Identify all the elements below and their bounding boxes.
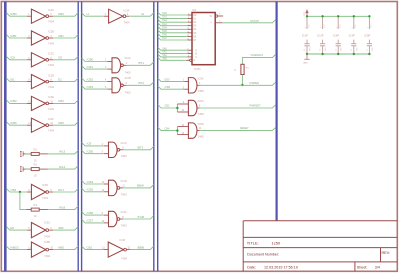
- pin stub: [127, 249, 131, 251]
- svg-text:/CB4: /CB4: [87, 180, 94, 184]
- svg-text:8: 8: [305, 27, 307, 28]
- svg-text:IC6: IC6: [192, 8, 197, 12]
- svg-text:11: 11: [122, 186, 125, 188]
- wire output net /H: [129, 13, 154, 17]
- svg-text:6: 6: [122, 148, 124, 150]
- svg-text:7404: 7404: [44, 254, 50, 258]
- pin stub: [23, 168, 31, 170]
- gate IC1C: [109, 142, 120, 157]
- pin stub: [188, 35, 192, 37]
- svg-text:3/4: 3/4: [375, 266, 380, 270]
- pin stub: [188, 28, 192, 30]
- svg-text:CB6: CB6: [58, 121, 64, 125]
- svg-text:6: 6: [126, 83, 128, 85]
- svg-text:BT2: BT2: [139, 81, 145, 85]
- wire output net OSTOP: [222, 19, 275, 22]
- svg-text:D0: D0: [193, 15, 197, 17]
- junction GND rail: [321, 53, 323, 55]
- pin stub: [104, 222, 109, 224]
- svg-text:3: 3: [126, 63, 128, 65]
- svg-text:CB2: CB2: [58, 99, 64, 103]
- pin stub: [49, 124, 53, 126]
- wire output net CB0: [53, 13, 78, 17]
- inverter IC3B: [31, 242, 48, 257]
- svg-text:A: A: [195, 49, 197, 52]
- svg-text:D3: D3: [193, 26, 197, 28]
- gate IC1D: [109, 180, 120, 195]
- svg-text:CB1: CB1: [58, 34, 64, 38]
- resistor R2: [31, 168, 39, 171]
- pin stub: [39, 153, 48, 155]
- junction GND rail: [353, 53, 355, 55]
- junction CB4: [176, 129, 178, 131]
- wire input net /CB5: [82, 188, 104, 192]
- junction VCC rail: [337, 15, 339, 17]
- wire input net /ABG3: [6, 246, 27, 250]
- inverter IC2B: [31, 31, 48, 45]
- svg-text:/CB5: /CB5: [87, 150, 94, 154]
- wire output net /BBB: [130, 246, 154, 250]
- svg-text:7404: 7404: [121, 257, 127, 261]
- pin stub: [184, 88, 188, 90]
- wire tie vertical: [176, 104, 178, 112]
- wire junction down to R3: [20, 192, 26, 210]
- bus B4 (right): [276, 2, 278, 221]
- svg-text:VCC: VCC: [371, 24, 373, 28]
- pin stub: [27, 15, 32, 17]
- inverter IC3A: [109, 9, 126, 23]
- power pins IC3P with capacitor C4: [349, 16, 359, 54]
- wire VCC rail: [307, 15, 369, 17]
- pin stub: [107, 61, 112, 63]
- svg-text:/MR: /MR: [58, 226, 64, 230]
- svg-text:5: 5: [219, 20, 221, 22]
- pin stub: [104, 15, 109, 17]
- svg-text:C2: C2: [320, 49, 322, 51]
- svg-text:/D1: /D1: [10, 77, 15, 81]
- svg-text:Sheet:: Sheet:: [357, 266, 368, 270]
- svg-text:GND: GND: [303, 62, 308, 64]
- svg-text:C3: C3: [335, 49, 337, 51]
- wire input net /CB2: [82, 78, 108, 82]
- svg-text:3: 3: [199, 83, 201, 85]
- gate IC1A: [112, 58, 123, 73]
- pin stub: [184, 80, 188, 82]
- svg-text:D5: D5: [193, 33, 197, 35]
- svg-text:D1: D1: [193, 18, 197, 20]
- pin stub: [188, 18, 192, 20]
- svg-text:100n: 100n: [372, 47, 374, 51]
- svg-text:7400: 7400: [121, 154, 127, 158]
- resistor R3: [31, 208, 39, 211]
- pin stub: [23, 153, 31, 155]
- wire input net DA3 pin D3: [158, 23, 188, 26]
- svg-text:D7: D7: [193, 40, 197, 42]
- pin stub: [120, 149, 123, 151]
- svg-text:7408: 7408: [198, 135, 204, 139]
- power pins IC4P with capacitor C3: [333, 16, 343, 54]
- gate IC5C: [188, 100, 197, 115]
- junction VCC rail: [306, 15, 308, 17]
- svg-text:/SEL: /SEL: [162, 58, 168, 60]
- svg-text:6: 6: [219, 13, 221, 15]
- resistor R1: [31, 152, 39, 155]
- pin stub: [188, 32, 192, 34]
- wire output net /BT2: [123, 146, 154, 150]
- svg-text:IC1B: IC1B: [125, 76, 131, 80]
- svg-text:BBW: BBW: [137, 184, 144, 188]
- wire input net DA6 pin D6: [158, 33, 188, 36]
- wire input net SA2 pin C: [158, 54, 188, 57]
- svg-text:/SVEND16: /SVEND16: [251, 53, 264, 57]
- svg-text:ABG: ABG: [58, 245, 65, 249]
- wire output net CB6: [53, 122, 78, 126]
- wire output net /CB4: [53, 189, 78, 193]
- wire R3 to bus net WL8: [48, 206, 78, 210]
- svg-text:CB4: CB4: [165, 127, 170, 130]
- svg-text:R1: R1: [34, 148, 38, 152]
- pin stub: [177, 126, 188, 128]
- svg-text:7404: 7404: [48, 85, 54, 89]
- connector pad for R1: [20, 151, 23, 156]
- junction GND rail: [337, 53, 339, 55]
- svg-text:8: 8: [122, 217, 124, 219]
- pin stub: [188, 53, 192, 55]
- pin stub: [27, 37, 32, 39]
- svg-text:DA2: DA2: [162, 19, 167, 22]
- svg-text:8: 8: [352, 27, 354, 28]
- svg-text:CB0: CB0: [58, 12, 64, 16]
- pin stub: [49, 81, 53, 83]
- wire: [26, 168, 31, 170]
- wire input net /C8: [82, 142, 104, 146]
- svg-text:100n: 100n: [356, 47, 358, 51]
- svg-text:IC1A: IC1A: [125, 56, 131, 60]
- inverter IC2A: [31, 9, 48, 23]
- svg-text:/CB9: /CB9: [165, 86, 171, 89]
- svg-text:IC2E: IC2E: [48, 95, 54, 99]
- pin stub: [49, 249, 53, 251]
- wire input net /CB6: [82, 212, 104, 216]
- svg-text:DD0: DD0: [165, 78, 171, 81]
- svg-text:IC3B: IC3B: [44, 240, 50, 244]
- pin stub: [104, 214, 109, 216]
- pin stub: [177, 103, 188, 105]
- power pins IC2P with capacitor C2: [317, 16, 327, 54]
- svg-text:IC3A: IC3A: [124, 8, 130, 12]
- svg-text:7404: 7404: [48, 20, 54, 24]
- svg-text:10: 10: [34, 174, 37, 178]
- svg-text:7408: 7408: [198, 112, 204, 116]
- pin stub: [177, 134, 188, 136]
- wire input net DA7 pin D7: [158, 37, 188, 40]
- svg-text:C8: C8: [58, 56, 62, 60]
- pin stub: [27, 102, 32, 104]
- svg-text:CB4: CB4: [11, 188, 17, 192]
- wire input net CB4: [158, 127, 178, 130]
- svg-text:/CB0: /CB0: [87, 57, 94, 61]
- wire output net D1: [53, 78, 78, 82]
- pin stub: [49, 102, 53, 104]
- ground symbol GND: [304, 54, 309, 59]
- wire input net /C8: [6, 56, 27, 60]
- svg-text:1k: 1k: [234, 70, 237, 72]
- wire GND rail: [307, 53, 369, 55]
- pin stub with bubble (G): [186, 59, 189, 61]
- svg-text:C5: C5: [367, 49, 369, 51]
- svg-text:VCC: VCC: [304, 11, 306, 16]
- svg-text:CB1: CB1: [87, 245, 93, 249]
- junction GND rail: [306, 53, 308, 55]
- svg-text:DA3: DA3: [162, 23, 167, 26]
- wire input net /CB4: [82, 181, 104, 185]
- gate IC4A: [109, 211, 120, 226]
- pin stub: [104, 183, 109, 185]
- inverter IC3F: [108, 242, 126, 257]
- VCC supply symbol: [306, 10, 308, 16]
- svg-text:TITLE:: TITLE:: [247, 240, 259, 245]
- svg-text:IC2F: IC2F: [48, 117, 54, 121]
- gate IC1B: [112, 78, 123, 93]
- wire input net /CB1: [82, 66, 108, 70]
- wire output net BBW: [123, 184, 154, 188]
- pin stub: [39, 209, 48, 211]
- svg-text:BT1: BT1: [139, 61, 145, 65]
- svg-text:11: 11: [199, 128, 202, 130]
- gate IC5D: [188, 123, 197, 138]
- wire output net CB2: [53, 100, 78, 104]
- pin stub: [120, 218, 123, 220]
- svg-text:7404: 7404: [44, 234, 50, 238]
- junction node PWREN: [241, 84, 243, 86]
- svg-text:100n: 100n: [325, 47, 327, 51]
- svg-text:IC3P: IC3P: [349, 34, 355, 38]
- pin Y stub: [215, 22, 222, 24]
- svg-text:VCC: VCC: [340, 24, 342, 28]
- pin stub: [123, 84, 126, 86]
- svg-text:Date:: Date:: [247, 266, 256, 270]
- svg-text:/C8: /C8: [10, 56, 15, 60]
- wire tie vertical: [176, 127, 178, 135]
- svg-text:IC5P: IC5P: [364, 34, 370, 38]
- pin stub: [39, 168, 48, 170]
- wire input net DA5 pin D5: [158, 30, 188, 33]
- wire R1 to bus net WL3: [48, 150, 78, 154]
- wire input net /SEL pin G: [158, 57, 187, 60]
- junction VCC rail: [368, 15, 370, 17]
- wire input net H8: [6, 227, 27, 231]
- svg-text:IC4P: IC4P: [333, 34, 339, 38]
- svg-text:/C8: /C8: [87, 142, 92, 146]
- svg-text:7400: 7400: [121, 192, 127, 196]
- pin stub: [123, 64, 126, 66]
- svg-text:D4: D4: [193, 29, 197, 31]
- svg-text:IC3C: IC3C: [44, 221, 50, 225]
- pin stub: [188, 21, 192, 23]
- wire input net /CB3: [82, 86, 108, 90]
- svg-text:7404: 7404: [48, 107, 54, 111]
- bus B3 line 2: [157, 2, 159, 272]
- junction VCC rail: [321, 15, 323, 17]
- pin stub: [104, 191, 109, 193]
- svg-text:SA1: SA1: [162, 51, 167, 54]
- wire input net /D1: [6, 78, 27, 82]
- multiplexer IC6 74151: [192, 13, 215, 65]
- svg-text:Document Number:: Document Number:: [247, 252, 279, 256]
- svg-text:VCC: VCC: [308, 24, 310, 28]
- connector pad for R2: [20, 167, 23, 172]
- svg-text:/CB0: /CB0: [10, 12, 17, 16]
- pin stub: [27, 249, 32, 251]
- svg-text:VCC: VCC: [355, 24, 357, 28]
- svg-text:DA7: DA7: [162, 37, 167, 40]
- svg-text:/CB6: /CB6: [10, 121, 17, 125]
- svg-text:IC1D: IC1D: [121, 179, 127, 183]
- svg-text:WL7: WL7: [58, 188, 65, 192]
- svg-text:D1: D1: [58, 77, 62, 81]
- svg-text:OSTOP: OSTOP: [250, 19, 259, 23]
- svg-text:/CB7: /CB7: [87, 219, 94, 223]
- wire input net DA4 pin D4: [158, 26, 188, 29]
- svg-text:7400: 7400: [125, 90, 131, 94]
- pin stub: [104, 153, 109, 155]
- svg-text:CB2: CB2: [165, 105, 170, 108]
- pin stub: [188, 49, 192, 51]
- svg-text:B: B: [195, 53, 197, 55]
- svg-text:R3: R3: [34, 203, 38, 207]
- wire R2 to bus net WL4: [48, 166, 78, 170]
- wire input net /CB2: [6, 100, 27, 104]
- svg-text:IC5A: IC5A: [198, 77, 204, 81]
- svg-text:IC5D: IC5D: [198, 122, 204, 126]
- wire input net DA1 pin D1: [158, 16, 188, 19]
- svg-text:C: C: [195, 57, 197, 59]
- resistor R4: [241, 64, 244, 74]
- svg-text:DA1: DA1: [162, 16, 167, 19]
- wire input net H: [82, 13, 104, 17]
- wire: [241, 75, 243, 86]
- bus B2 line 1: [77, 2, 79, 272]
- svg-text:DA6: DA6: [162, 34, 167, 37]
- wire: [26, 153, 31, 155]
- svg-text:7400: 7400: [121, 223, 127, 227]
- inverter IC3C: [31, 223, 48, 238]
- pin stub: [107, 81, 112, 83]
- pin W with bubble (unconnected stub): [215, 15, 217, 17]
- wire input net /CB9: [158, 86, 185, 89]
- inverter IC2F: [31, 118, 48, 132]
- wire input net /CB1: [6, 35, 27, 39]
- svg-text:/CB1: /CB1: [87, 65, 94, 69]
- svg-text:IC5C: IC5C: [198, 99, 204, 103]
- wire output net PWRSET: [200, 105, 276, 108]
- pin stub: [197, 107, 200, 109]
- svg-text:10: 10: [34, 159, 37, 163]
- svg-text:12.03.2019 17:56:19: 12.03.2019 17:56:19: [264, 266, 298, 270]
- wire input net /CB5: [82, 150, 104, 154]
- svg-text:7404: 7404: [48, 63, 54, 67]
- svg-text:RESET: RESET: [240, 126, 249, 130]
- svg-text:D6: D6: [193, 36, 197, 38]
- wire input net /CB0: [6, 13, 27, 17]
- svg-text:8: 8: [368, 27, 370, 28]
- pin stub: [49, 37, 53, 39]
- pin stub: [188, 56, 192, 58]
- svg-text:R4: R4: [246, 68, 250, 70]
- svg-text:/CB2: /CB2: [10, 99, 17, 103]
- pin stub: [126, 15, 129, 17]
- svg-text:G: G: [193, 60, 195, 62]
- pin stub: [27, 124, 32, 126]
- svg-text:VCC: VCC: [324, 24, 326, 28]
- pin stub: [49, 191, 53, 193]
- svg-text:10: 10: [34, 214, 37, 218]
- bus B1 (left): [4, 2, 7, 272]
- svg-text:/CB2: /CB2: [87, 77, 94, 81]
- power pins IC1P with capacitor C1: [302, 16, 312, 54]
- bus B3 line 1: [153, 2, 155, 272]
- inverter IC2D: [31, 75, 48, 89]
- wire output net BT1: [127, 62, 154, 66]
- pin stub: [27, 81, 32, 83]
- svg-text:8: 8: [321, 27, 323, 28]
- svg-text:H8: H8: [10, 226, 14, 230]
- svg-text:Y: Y: [210, 23, 212, 25]
- wire input net CB4: [6, 189, 27, 193]
- svg-text:100n: 100n: [341, 47, 343, 51]
- pin stub: [188, 25, 192, 27]
- wire output net /TGB: [123, 216, 154, 220]
- gate IC5A: [188, 78, 197, 93]
- inverter IC2E: [31, 96, 48, 110]
- svg-text:8: 8: [199, 106, 201, 108]
- wire output net ABG: [53, 246, 78, 250]
- svg-text:/CB1: /CB1: [10, 34, 17, 38]
- svg-text:IC2B: IC2B: [48, 30, 54, 34]
- wire input net CB1: [82, 246, 104, 250]
- svg-text:7404: 7404: [124, 21, 130, 25]
- pin stub: [188, 14, 192, 16]
- svg-text:8: 8: [336, 27, 338, 28]
- wire input net SA1 pin B: [158, 51, 188, 54]
- svg-text:7408: 7408: [198, 89, 204, 93]
- wire output net CB1: [53, 35, 78, 39]
- svg-text:DA4: DA4: [162, 26, 167, 29]
- svg-text:7404: 7404: [48, 129, 54, 133]
- svg-text:/ABG3: /ABG3: [10, 245, 19, 249]
- wire input net /CB7: [82, 219, 104, 223]
- power pins IC5P with capacitor C5: [364, 16, 374, 54]
- pin stub: [188, 39, 192, 41]
- svg-text:IC3F: IC3F: [120, 238, 126, 242]
- wire input net /CB0: [82, 58, 108, 62]
- svg-text:WL8: WL8: [59, 205, 66, 209]
- junction CB2: [176, 107, 178, 109]
- svg-text:R2: R2: [34, 163, 38, 167]
- pin stub: [27, 59, 32, 61]
- wire output net /MR: [53, 227, 78, 231]
- bus B2 line 2: [81, 2, 83, 272]
- wire input net SA0 pin A: [158, 47, 188, 50]
- svg-text:/H: /H: [141, 12, 144, 16]
- svg-text:100n: 100n: [310, 47, 312, 51]
- svg-text:IC2C: IC2C: [48, 52, 54, 56]
- junction GND rail: [368, 53, 370, 55]
- wire input net DA0 pin D0: [158, 12, 188, 15]
- svg-text:IC4A: IC4A: [121, 210, 127, 214]
- pin stub: [197, 130, 200, 132]
- svg-text:D2: D2: [193, 22, 197, 24]
